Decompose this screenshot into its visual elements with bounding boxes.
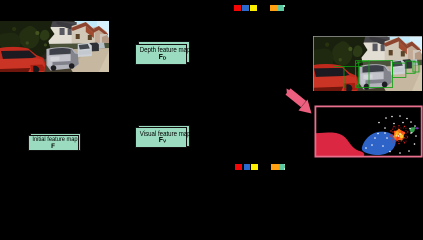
- depth feature map box: F_D: [135, 44, 187, 65]
- left input photo (street scene): [0, 21, 109, 72]
- depth feature map box (stacked back sheet): [138, 41, 190, 63]
- photo frame light edges: [313, 36, 422, 91]
- green mini cluster: [410, 127, 416, 132]
- detection box white car: [393, 63, 406, 77]
- purple dot: [415, 127, 418, 129]
- top legend chip red: [234, 5, 241, 11]
- detection box red car: [334, 61, 419, 88]
- bottom legend chip yellow: [251, 164, 258, 170]
- red scatter dots around starburst: [390, 125, 409, 144]
- bottom legend chip blue: [244, 164, 250, 170]
- red cluster blob: [315, 132, 364, 156]
- bottom legend chip red: [235, 164, 242, 170]
- visual feature map box: F_V: [135, 127, 187, 148]
- top legend chip yellow: [250, 5, 257, 11]
- initial feature map box (stacked back sheet): [30, 133, 81, 151]
- t-SNE feature space visualization box: [313, 105, 423, 158]
- pink annotation arrow into t-SNE box: [280, 86, 320, 120]
- bottom legend chip orange: [271, 164, 279, 170]
- top legend chip blue: [242, 5, 249, 11]
- detection box far car 1: [406, 61, 415, 73]
- pink frame: [315, 106, 421, 156]
- top legend chip teal: [278, 5, 284, 11]
- right detection result photo: [313, 36, 422, 91]
- orange starburst cluster: [393, 128, 405, 140]
- visual feature map box (stacked back sheet): [138, 125, 190, 147]
- bottom legend chip teal: [279, 164, 286, 170]
- blue cluster blob: [362, 131, 396, 154]
- white scatter dots: [365, 115, 417, 154]
- initial feature map box: F: [28, 135, 79, 152]
- top legend chip orange: [270, 5, 278, 11]
- dashed red box around starburst: [393, 128, 407, 142]
- detection box silver car: [356, 61, 393, 88]
- shared street-scene painting: [0, 0, 1, 1]
- detection box far car 2: [413, 62, 419, 72]
